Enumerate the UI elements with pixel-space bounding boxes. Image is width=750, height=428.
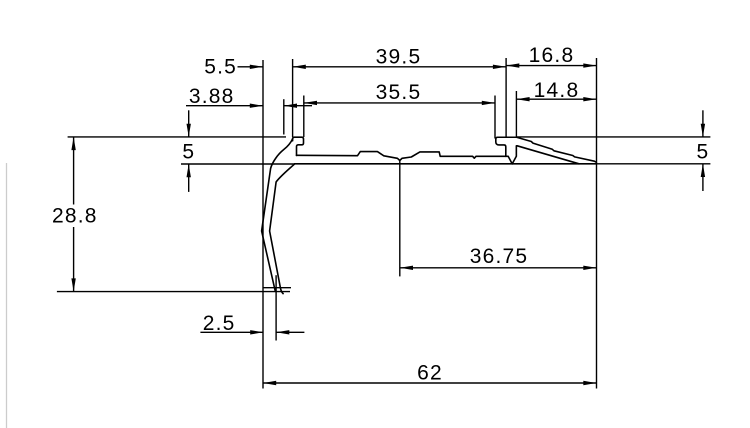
- arrow 35.5 left-pointing at x=303.8: [304, 101, 317, 105]
- arrow 16.8 right-pointing at x=596.5: [583, 63, 596, 67]
- svg-text:62: 62: [417, 362, 443, 385]
- extension line top y=136.9 left: [68, 136, 286, 138]
- arrow 14.8 left-pointing at x=516.4: [516, 97, 529, 101]
- extension line top y=136.9 right: [517, 136, 711, 138]
- extension line x=292.6 (5.5/39.5 boundary): [292, 59, 294, 137]
- dim 16.8 line: [506, 65, 596, 67]
- extension line y=287.7 leg bottom: [263, 287, 291, 289]
- extension line x=399.8 (36.75 left): [399, 161, 401, 277]
- arrow 28.8 up-pointing at y=136.9: [71, 137, 75, 150]
- arrow 5.5 right-pointing at x=263 y=66.8: [250, 65, 263, 69]
- profile left cap hook: [293, 137, 304, 155]
- arrow 3.88 left-pointing at x=283.8: [284, 104, 297, 108]
- dim 36.75 line: [400, 267, 597, 269]
- dim 14.8 line: [516, 98, 596, 100]
- dim 28.8 line lower: [73, 227, 75, 291]
- svg-text:3.88: 3.88: [189, 85, 235, 108]
- arrow 39.5 right-pointing at x=506.1: [493, 65, 506, 69]
- dim 3.88 line: [186, 105, 263, 107]
- faint screen edge line: [6, 163, 8, 428]
- extension line x=516.4 (14.8 left): [515, 91, 517, 137]
- svg-text:5: 5: [697, 141, 710, 164]
- svg-text:35.5: 35.5: [376, 81, 422, 104]
- arrow 36.75 left-pointing at x=399.8: [400, 266, 413, 270]
- profile ramp underside and drip point: [506, 146, 579, 164]
- dim 5 right tail bottom: [702, 164, 704, 191]
- extension line x=495 (35.5 right): [494, 96, 496, 139]
- arrow 5 right down-pointing at y=136.9: [701, 124, 705, 137]
- dim 2.5 line left: [200, 331, 263, 333]
- profile leg inner edge: [270, 164, 295, 294]
- extension line x=506.1 (39.5/16.8 boundary): [505, 58, 507, 137]
- extension line x=276.1 (2.5 right): [275, 275, 277, 340]
- svg-text:14.8: 14.8: [534, 79, 580, 102]
- extension line bottom y=163.8 right: [597, 163, 711, 165]
- dim 28.8 line upper: [73, 137, 75, 204]
- svg-text:36.75: 36.75: [470, 245, 529, 268]
- extension line y=291.6 (28.8 bottom): [57, 291, 290, 293]
- arrow 5 left up-pointing at y=164: [187, 164, 191, 177]
- arrow 5 left down-pointing at y=136.9: [187, 124, 191, 137]
- extension line bottom y=164 left: [181, 163, 295, 165]
- dim 39.5 line: [293, 66, 507, 68]
- arrow 5 right up-pointing at y=163.8: [701, 164, 705, 177]
- arrow 35.5 right-pointing at x=495: [482, 101, 495, 105]
- dim 5.5 line: [238, 66, 264, 68]
- arrow 62 right-pointing at x=596.5: [583, 381, 596, 385]
- svg-text:2.5: 2.5: [203, 312, 236, 335]
- arrow 36.75 right-pointing at x=596.5: [583, 266, 596, 270]
- arrow 16.8 left-pointing at x=506.1: [506, 63, 519, 67]
- dim 5 right tail top: [702, 110, 704, 137]
- arrow 62 left-pointing at x=263: [263, 381, 276, 385]
- svg-text:5: 5: [182, 141, 195, 164]
- dim 2.5 tail right: [276, 331, 304, 333]
- dim 62 line: [263, 382, 597, 384]
- arrow 2.5 left-pointing at x=276.1: [276, 330, 289, 334]
- extension line left edge x=263: [262, 60, 264, 389]
- arrow 14.8 right-pointing at x=596.5: [583, 97, 596, 101]
- extension line x=283.8 (3.88 right): [283, 99, 285, 134]
- arrow 39.5 left end / 5.5 right: left-pointing at x=292.6: [293, 65, 306, 69]
- dim 35.5 line: [304, 102, 495, 104]
- dim 5 left tail bottom: [188, 164, 190, 192]
- arrow 28.8 down-pointing at y=291.6: [71, 278, 75, 291]
- dim 5 left tail top: [188, 110, 190, 137]
- profile web top with bumps and centre notch: [297, 152, 506, 161]
- profile ramp serrated top edge: [517, 137, 597, 162]
- svg-text:28.8: 28.8: [52, 205, 98, 228]
- arrow 2.5 right-pointing at x=263.4: [250, 330, 263, 334]
- profile bottom surface: [295, 163, 597, 165]
- arrow 3.88 right-pointing at x=263: [250, 104, 263, 108]
- dim 3.88 tail right: [284, 105, 312, 107]
- profile leg outer edge: [262, 139, 293, 291]
- profile right wall and cap hook: [496, 137, 517, 156]
- svg-text:39.5: 39.5: [376, 46, 422, 69]
- svg-text:5.5: 5.5: [204, 56, 237, 79]
- extension line right edge x=596.5: [596, 58, 598, 389]
- svg-text:16.8: 16.8: [529, 44, 575, 67]
- extension line x=303.8 (35.5 left): [303, 96, 305, 138]
